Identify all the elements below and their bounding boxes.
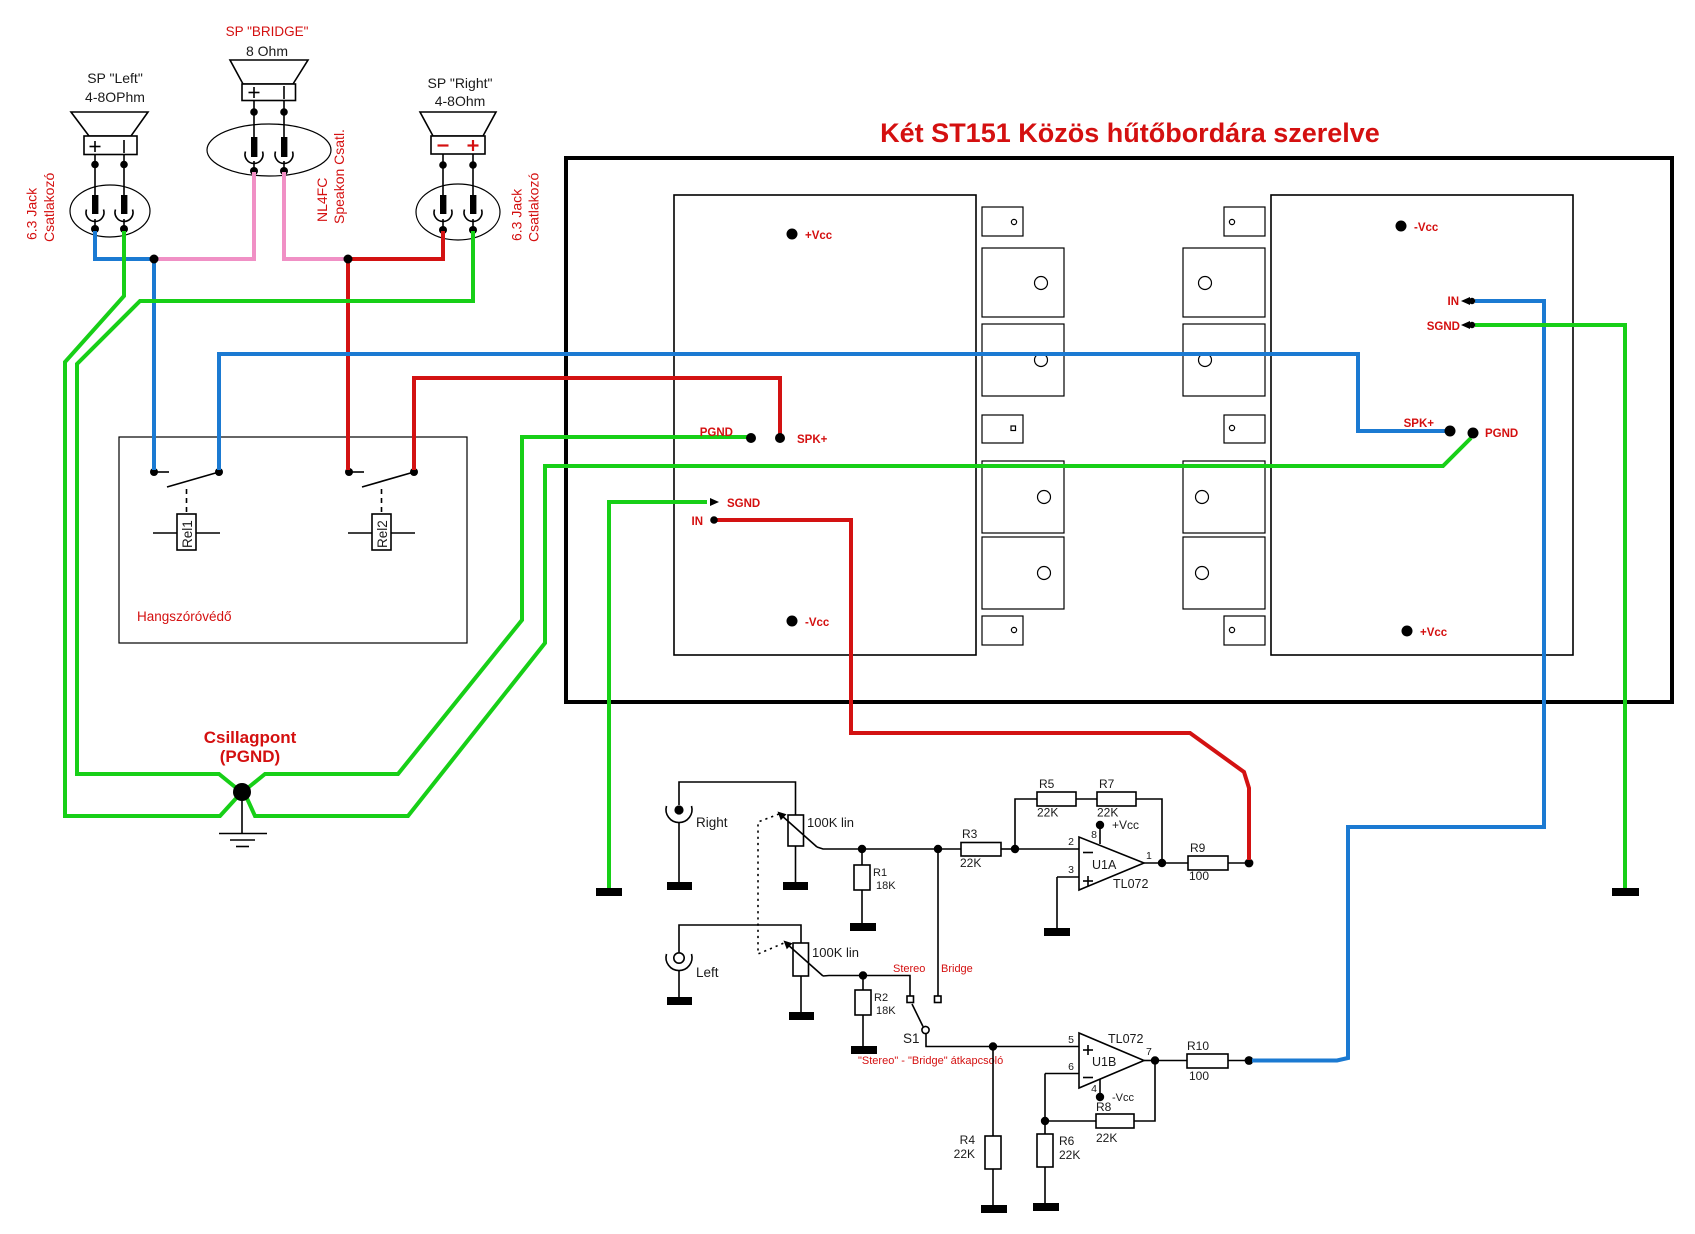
svg-text:"Stereo" - "Bridge" átkapcsoló: "Stereo" - "Bridge" átkapcsoló [858, 1055, 1003, 1067]
wire R9 to node E [1228, 862, 1249, 864]
svg-text:18K: 18K [876, 1005, 896, 1017]
resistor R4 body [985, 1136, 1001, 1169]
relay K1 coil box [177, 514, 196, 550]
speaker SP Bridge terminal box [242, 84, 296, 101]
svg-text:3: 3 [1068, 864, 1074, 876]
wire S1 to node G [926, 1034, 993, 1047]
svg-text:+Vcc: +Vcc [1112, 818, 1139, 832]
wire SP Bridge plus lead [253, 101, 255, 138]
wire node A to node B [862, 848, 938, 850]
node J1 sleeve out [120, 225, 128, 233]
speaker protection box outline [119, 437, 467, 643]
svg-text:Left: Left [696, 965, 719, 980]
node G junction [989, 1042, 997, 1050]
svg-text:(PGND): (PGND) [220, 747, 280, 766]
wire U1A output to node D [1144, 862, 1162, 864]
speaker SP Bridge cone [230, 60, 308, 84]
resistor R7 body [1097, 792, 1136, 806]
svg-text:R9: R9 [1190, 841, 1206, 855]
svg-text:8 Ohm: 8 Ohm [246, 43, 288, 59]
node H junction [1041, 1117, 1049, 1125]
speaker SP Right cone [420, 112, 496, 136]
speaker SP Right terminal box [431, 136, 485, 154]
wire U1B pin6 to node H [1044, 1074, 1046, 1122]
relay K2 contact stub [349, 471, 364, 473]
op-amp U1B triangle [1079, 1033, 1144, 1088]
wire green right amp SGND to ground [1475, 325, 1625, 888]
wire R7 to U1A output [1136, 799, 1162, 863]
connector J3 6.3 jack right ellipse [416, 184, 500, 240]
svg-text:6.3 Jack: 6.3 Jack [24, 187, 40, 240]
node right amp SPK+ [1445, 426, 1456, 437]
svg-text:18K: 18K [876, 880, 896, 892]
wire node C to U1A pin2 [1015, 848, 1079, 850]
wire K2 coil left lead [348, 532, 372, 534]
resistor R5 body [1037, 792, 1076, 806]
wire green star to right amp PGND [245, 438, 1471, 816]
svg-text:R2: R2 [874, 992, 888, 1004]
wire R1 to ground [861, 890, 863, 923]
wire blue right amp IN to R10 node J [1252, 301, 1544, 1061]
wire SP Left minus lead [123, 155, 125, 196]
connector Left RCA input [666, 953, 692, 971]
heatsink box outline [566, 158, 1672, 702]
svg-text:R8: R8 [1096, 1100, 1112, 1114]
wire node A to R1 [861, 849, 863, 865]
node K2 contact right [410, 468, 418, 476]
node J3 tip out [439, 226, 447, 234]
relay K1 switch blade [167, 472, 219, 487]
svg-text:8: 8 [1091, 829, 1097, 841]
transistor Q col2 small3 [1224, 616, 1265, 645]
transistor Q col1 big4 [982, 537, 1064, 609]
node junction pink-red [344, 255, 353, 264]
resistor R3 body [961, 843, 1001, 857]
svg-text:R3: R3 [962, 827, 978, 841]
SECTION-STAR [204, 728, 297, 847]
resistor R1 body [854, 865, 870, 890]
node right amp -Vcc [1396, 221, 1407, 232]
speaker SP Bridge minus mark [283, 86, 285, 99]
wire node F to Stereo contact [863, 976, 910, 997]
wire green star to left amp PGND [244, 437, 748, 791]
node F junction [859, 971, 867, 979]
connector J2 plug 1 [245, 137, 263, 171]
node U1B -Vcc dot [1096, 1093, 1104, 1101]
SECTION-RELAY [119, 437, 467, 643]
svg-text:NL4FC: NL4FC [314, 178, 330, 222]
wire blue left jack tip to node [95, 231, 154, 259]
pin right amp SGND arrow [1461, 321, 1475, 329]
wire red left amp IN to R9 node E [717, 520, 1249, 860]
node J3 sleeve out [469, 226, 477, 234]
svg-text:22K: 22K [1059, 1148, 1080, 1162]
wire blue node to relay K1 [152, 259, 156, 470]
wire green left jack sleeve to star [65, 231, 240, 816]
node A junction [858, 845, 866, 853]
transistor Q col2 big4 [1183, 537, 1265, 609]
wire node B to Bridge contact [937, 849, 939, 997]
svg-text:U1A: U1A [1092, 858, 1117, 872]
potentiometer P1 wiper arrow [778, 812, 818, 848]
SECTION-WIRES [65, 172, 1639, 1061]
wire U1B output to node I [1144, 1060, 1155, 1062]
op-amp U1A plus mark [1083, 876, 1093, 886]
node K1 contact left [150, 468, 158, 476]
connector J1 sleeve plug [115, 195, 133, 229]
wire K1 coil left lead [153, 532, 177, 534]
wire pink bridge minus [284, 172, 346, 259]
wire Right RCA to pot P1 [679, 782, 796, 815]
ground R2 [851, 1046, 877, 1054]
svg-text:SPK+: SPK+ [797, 434, 828, 446]
transistor Q col2 big3 [1183, 461, 1265, 533]
transistor Q col1 big2 [982, 324, 1064, 396]
svg-text:Bridge: Bridge [941, 963, 973, 975]
node D junction [1158, 859, 1166, 867]
svg-text:4-8Ohm: 4-8Ohm [435, 93, 486, 109]
node SP Left minus [120, 161, 128, 169]
node SP Bridge plus [250, 108, 258, 116]
wire SP Right minus lead [442, 154, 444, 195]
wire red relay K2 to left amp SPK+ [414, 378, 780, 470]
wire P1 bottom to ground [795, 846, 797, 882]
svg-text:+Vcc: +Vcc [1420, 627, 1448, 639]
node J junction [1245, 1056, 1254, 1065]
potentiometer P2 100K lin body [793, 943, 809, 976]
speaker SP Left cone [71, 112, 148, 136]
node E junction [1245, 859, 1254, 868]
module A1 left amplifier outline [674, 195, 976, 655]
node right amp PGND [1468, 428, 1479, 439]
node SP Right plus [469, 161, 477, 169]
resistor R10 body [1187, 1054, 1228, 1068]
wire red right jack tip to node [348, 231, 443, 259]
svg-text:-Vcc: -Vcc [1112, 1092, 1135, 1104]
wire node D to R9 [1162, 862, 1188, 864]
op-amp U1A triangle [1079, 837, 1144, 890]
wire SP Right plus lead [472, 154, 474, 195]
svg-text:4: 4 [1091, 1083, 1097, 1095]
wire R5 to R7 [1076, 798, 1097, 800]
transistor Q col2 big1 [1183, 248, 1265, 317]
ground left SGND bar [596, 888, 622, 896]
connector J3 tip plug [434, 195, 452, 230]
wire K2 coil right lead [391, 532, 415, 534]
relay K2 coil box [372, 514, 391, 550]
svg-text:-Vcc: -Vcc [1414, 222, 1439, 234]
connector J1 tip plug [86, 195, 104, 229]
svg-text:4-8OPhm: 4-8OPhm [85, 89, 145, 105]
op-amp U1A minus mark [1083, 852, 1093, 854]
svg-text:Csatlakozó: Csatlakozó [526, 173, 542, 242]
svg-text:6.3 Jack: 6.3 Jack [509, 188, 525, 241]
wire R8 to node H [1045, 1120, 1096, 1122]
wire node I feedback to R8 [1134, 1061, 1155, 1122]
svg-text:R6: R6 [1059, 1134, 1075, 1148]
svg-text:SGND: SGND [1427, 321, 1460, 333]
node K1 contact right [215, 468, 223, 476]
wire K1 coil right lead [196, 532, 220, 534]
svg-text:PGND: PGND [700, 427, 733, 439]
svg-text:7: 7 [1146, 1046, 1152, 1058]
node SP Right minus [439, 161, 447, 169]
svg-text:Rel2: Rel2 [375, 520, 390, 548]
SECTION-OPAMP [666, 777, 1253, 1213]
node left amp -Vcc [787, 616, 798, 627]
svg-text:6: 6 [1068, 1061, 1074, 1073]
transistor Q col1 big3 [982, 461, 1064, 533]
wire SP Left plus lead [94, 155, 96, 196]
wire node I to R10 [1155, 1060, 1187, 1062]
potentiometer P2 wiper arrow [784, 941, 824, 977]
node J2 pin1 out [250, 167, 258, 175]
node right amp +Vcc [1402, 626, 1413, 637]
wire R3 to node C [1001, 848, 1015, 850]
svg-text:22K: 22K [1037, 806, 1058, 820]
node junction blue-pink [150, 255, 159, 264]
resistor R8 body [1096, 1114, 1134, 1128]
speaker SP Right minus mark [438, 144, 449, 146]
pin left amp SGND arrow [710, 498, 719, 506]
resistor R2 body [855, 990, 871, 1015]
resistor R9 body [1188, 856, 1228, 870]
wire node F to R2 [862, 976, 864, 991]
svg-text:22K: 22K [954, 1147, 975, 1161]
svg-text:22K: 22K [960, 856, 981, 870]
ground P2 [789, 1012, 814, 1020]
svg-text:TL072: TL072 [1113, 877, 1148, 891]
wire U1A pin8 +Vcc [1099, 828, 1101, 844]
svg-text:U1B: U1B [1092, 1055, 1116, 1069]
wire Left RCA to pot P2 [679, 925, 801, 952]
node C junction [1011, 845, 1019, 853]
resistor R6 body [1037, 1134, 1053, 1167]
wire U1A pin3 [1057, 876, 1079, 878]
wire green right jack sleeve to star [77, 231, 473, 791]
relay K2 actuator dashed link [381, 489, 383, 514]
svg-text:SP "Right": SP "Right" [428, 75, 493, 91]
wire U1A pin3 to ground [1056, 877, 1058, 928]
wire R6 to ground [1044, 1167, 1046, 1203]
svg-text:Right: Right [696, 815, 728, 830]
svg-text:Hangszóróvédő: Hangszóróvédő [137, 609, 232, 624]
switch S1 pivot circle [922, 1026, 929, 1033]
wire U1B pin6 [1045, 1073, 1079, 1075]
relay K1 actuator dashed link [186, 489, 188, 514]
ground R4 [981, 1205, 1007, 1213]
op-amp U1B minus mark [1083, 1077, 1093, 1079]
transistor Q col1 small1 [982, 207, 1023, 236]
wire node H to R6 [1044, 1121, 1046, 1134]
module A2 right amplifier outline [1271, 195, 1573, 655]
switch S1 blade [912, 1004, 923, 1027]
svg-text:S1: S1 [903, 1031, 920, 1046]
connector J2 plug 2 [275, 137, 293, 171]
switch S1 Stereo contact [907, 996, 914, 1003]
ground R1 [850, 923, 876, 931]
pin right amp IN arrow [1461, 297, 1475, 305]
svg-text:Csatlakozó: Csatlakozó [41, 173, 57, 242]
wire node G to U1B pin5 [993, 1046, 1079, 1048]
node B junction [934, 845, 942, 853]
relay K2 switch blade [362, 472, 414, 487]
svg-text:SP "BRIDGE": SP "BRIDGE" [226, 24, 309, 39]
wire R2 to ground [862, 1015, 864, 1046]
wire Right RCA to ground [678, 822, 680, 882]
connector Right RCA input [666, 805, 692, 822]
switch S1 Bridge contact [935, 996, 942, 1003]
node left amp SPK+ [775, 433, 785, 443]
node I junction [1151, 1056, 1159, 1064]
wire Left RCA to ground [678, 970, 680, 997]
node J1 tip out [91, 225, 99, 233]
wire green left amp SGND to ground [609, 502, 707, 888]
svg-text:100: 100 [1189, 1069, 1209, 1083]
svg-text:R10: R10 [1187, 1039, 1209, 1053]
op-amp U1B plus mark [1083, 1045, 1093, 1055]
svg-text:IN: IN [1448, 296, 1460, 308]
speaker SP Bridge plus mark [249, 87, 260, 98]
wire P2 wiper to node F [823, 975, 863, 978]
svg-text:R7: R7 [1099, 777, 1115, 791]
transistor Q col2 small1 [1224, 207, 1265, 236]
speaker SP Left minus mark [123, 140, 125, 153]
svg-text:Csillagpont: Csillagpont [204, 728, 297, 747]
transistor Q col2 small2 [1224, 415, 1265, 443]
svg-text:2: 2 [1068, 836, 1074, 848]
ground star earth symbol [219, 795, 267, 847]
svg-text:100: 100 [1189, 869, 1209, 883]
ground U1A pin3 [1044, 928, 1070, 936]
ground right SGND bar [1612, 888, 1639, 896]
wire node C to R5 [1015, 799, 1037, 849]
wire P2 bottom to ground [800, 976, 802, 1012]
svg-text:100K lin: 100K lin [812, 945, 859, 960]
svg-text:R4: R4 [960, 1133, 976, 1147]
node SP Bridge minus [280, 108, 288, 116]
relay K1 contact stub [154, 471, 169, 473]
svg-text:Stereo: Stereo [893, 963, 925, 975]
wire blue relay K1 to right amp SPK+ [219, 354, 1447, 470]
wire node G to R4 [992, 1047, 994, 1137]
connector J1 6.3 jack left ellipse [70, 185, 150, 237]
potentiometer P1 100K lin body [788, 815, 804, 846]
transistor Q col1 small2 [982, 415, 1023, 443]
speaker SP Left terminal box [84, 136, 137, 155]
node left amp PGND [746, 433, 756, 443]
node left amp IN [710, 516, 718, 524]
svg-text:100K lin: 100K lin [807, 815, 854, 830]
node left amp +Vcc [787, 229, 798, 240]
pot gang dotted link [758, 814, 784, 954]
svg-text:-Vcc: -Vcc [805, 617, 830, 629]
wire SP Bridge minus lead [283, 101, 285, 138]
node U1A +Vcc dot [1096, 821, 1104, 829]
wire R10 to node J [1228, 1060, 1249, 1062]
wire U1B pin4 -Vcc [1099, 1079, 1101, 1094]
node SP Left plus [91, 161, 99, 169]
ground P1 [783, 882, 808, 890]
ground Left RCA [667, 997, 692, 1005]
transistor Q col1 big1 [982, 248, 1064, 317]
svg-text:PGND: PGND [1485, 428, 1518, 440]
transistor Q col1 small3 [982, 616, 1023, 645]
svg-text:22K: 22K [1096, 1131, 1117, 1145]
wire pink bridge plus [156, 172, 254, 259]
ground Right RCA [667, 882, 692, 890]
speaker SP Left plus mark [90, 141, 101, 152]
svg-text:SPK+: SPK+ [1404, 418, 1435, 430]
svg-text:Speakon Csatl.: Speakon Csatl. [331, 129, 347, 224]
svg-text:R1: R1 [873, 867, 887, 879]
SECTION-TOPLEFT [24, 24, 542, 242]
wire red node to relay K2 [346, 259, 350, 470]
wire P1 wiper to node A [817, 847, 862, 849]
wire node B to R3 [938, 848, 961, 850]
connector J3 sleeve plug [464, 195, 482, 230]
svg-text:Rel1: Rel1 [180, 520, 195, 548]
ground R6 [1033, 1203, 1059, 1211]
wire R4 to ground [992, 1169, 994, 1205]
speaker SP Right plus mark [468, 140, 479, 151]
svg-text:Két ST151 Közös hűtőbordára sz: Két ST151 Közös hűtőbordára szerelve [880, 118, 1380, 148]
node J2 pin2 out [280, 167, 288, 175]
svg-text:1: 1 [1146, 850, 1152, 862]
node K2 contact left [345, 468, 353, 476]
svg-text:SGND: SGND [727, 498, 760, 510]
svg-text:TL072: TL072 [1108, 1032, 1143, 1046]
svg-text:SP "Left": SP "Left" [87, 70, 143, 86]
SECTION-AMPBOX [566, 118, 1672, 702]
svg-text:R5: R5 [1039, 777, 1055, 791]
SECTION-DOTS [150, 221, 1519, 802]
svg-text:+Vcc: +Vcc [805, 230, 833, 242]
transistor Q col2 big2 [1183, 324, 1265, 396]
node star point PGND [233, 783, 251, 801]
svg-text:5: 5 [1068, 1034, 1074, 1046]
connector J2 speakon ellipse [207, 124, 331, 176]
svg-text:IN: IN [692, 516, 704, 528]
